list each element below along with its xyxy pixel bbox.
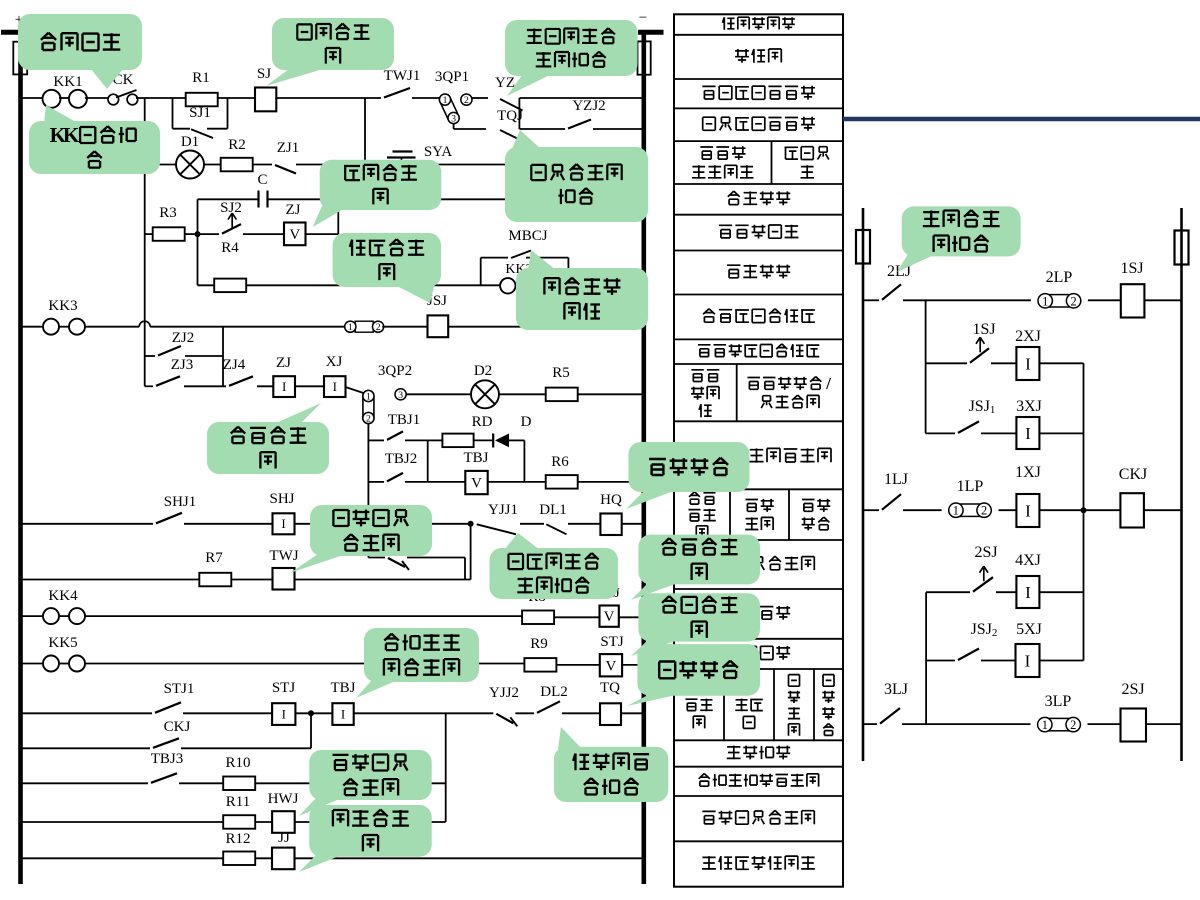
resistor R11 [223,815,255,829]
closing coil HQ [600,514,621,536]
svg-text:1LP: 1LP [957,478,984,495]
anti-pump relay TBJ coil (V) [465,471,487,494]
row6 R4 bypass / KK2 row [198,284,215,286]
svg-text:ZJ4: ZJ4 [223,357,246,373]
svg-text:DL2: DL2 [540,684,568,700]
trip position relay TWJ coil [273,568,295,590]
svg-text:1: 1 [348,322,353,333]
main left vertical feeder [144,98,146,386]
svg-text:R11: R11 [226,794,250,810]
svg-text:R5: R5 [552,365,570,381]
svg-text:STJ: STJ [272,680,296,696]
table row 18 text [727,746,790,760]
row1 wire: bus to KK1 [22,97,43,99]
svg-text:RD: RD [472,414,493,430]
svg-text:3QP2: 3QP2 [378,363,412,379]
rowA 2LJ / 2LP / 1SJ [863,299,879,301]
callout: KK handle contact label [44,105,76,124]
table row 2 text [735,49,781,63]
resistor R4 [214,279,246,293]
right circuit left bus [862,208,865,761]
wire hop over vertical [139,321,150,326]
SJ1 bypass contact branch [172,98,174,129]
table row 4 text [703,117,815,131]
svg-text:ZJ2: ZJ2 [172,330,195,346]
callout: manual trip relay label [631,640,678,656]
svg-text:SHJ: SHJ [269,491,294,507]
svg-text:2: 2 [464,95,469,106]
vertical from closing-row node down to TWJ row [470,524,472,580]
svg-text:V: V [471,476,482,492]
svg-text:KK4: KK4 [48,588,78,604]
resistor R9 [524,658,556,672]
junction node collector [1081,507,1087,513]
svg-text:TQJ: TQJ [497,108,523,124]
svg-text:TWJ1: TWJ1 [384,68,421,84]
intermediate relay ZJ coil (V) [284,223,306,246]
table row 14 text [702,556,814,570]
table row 20 text [702,810,814,824]
rowG 3LJ / 3LP / 2SJ [863,723,877,725]
svg-text:HWJ: HWJ [268,791,299,807]
callout: acceleration relay label [395,279,436,303]
resistor R8 [522,611,554,625]
callout: voltage monitor contact label [507,75,550,96]
rowF JSJ2 contact / 5XJ [926,660,955,662]
callout: monitor relay label [299,855,342,872]
svg-text:3QP1: 3QP1 [435,69,469,85]
relay 2SJ coil [1121,709,1147,742]
svg-text:3LP: 3LP [1045,693,1072,710]
svg-text:1: 1 [443,95,448,106]
svg-text:SJ1: SJ1 [189,105,211,121]
svg-text:ZJ: ZJ [286,202,301,218]
resistor R2 [221,158,253,172]
row2 TQJ wire from 3QP1 pin3 [453,124,455,130]
svg-text:I: I [1025,651,1031,670]
svg-text:3XJ: 3XJ [1016,398,1042,415]
negative DC bus stub (-) [638,30,664,35]
svg-text:TBJ: TBJ [463,450,488,466]
svg-text:TBJ2: TBJ2 [385,451,418,467]
row7 KK3 / JSJ row [22,326,43,328]
acceleration relay JSJ coil [428,315,449,337]
decorative blue divider line [843,117,1200,122]
svg-text:CKJ: CKJ [1119,466,1147,483]
svg-text:I: I [1025,424,1031,443]
callout: synchronism relay contact label [512,130,541,149]
callout: manual close relay label [631,583,678,600]
branch vertical rowA [925,300,927,433]
svg-text:TBJ3: TBJ3 [151,751,184,767]
svg-text:2: 2 [1071,294,1077,308]
svg-text:R10: R10 [225,755,250,771]
callout: closing coil label [626,490,676,509]
row20 R11 / HWJ row [22,821,223,823]
svg-text:ZJ1: ZJ1 [277,140,300,156]
svg-text:STJ1: STJ1 [164,681,195,697]
svg-text:5XJ: 5XJ [1016,621,1042,638]
contact STJ1 [155,702,181,713]
vertical TBJ row down to HWJ row [445,713,447,822]
fuse on right-circuit right bus [1175,231,1189,265]
resistor R5 [546,388,578,402]
signal relay 5XJ coil (I) [1016,644,1040,677]
table row 8 text [727,265,790,279]
changeover switch CK [108,94,119,105]
svg-text:1XJ: 1XJ [1015,464,1041,481]
svg-text:R2: R2 [228,137,246,153]
svg-text:V: V [605,658,616,674]
resistor R3 [153,227,185,241]
svg-text:4XJ: 4XJ [1015,552,1041,569]
table row 12 text [749,448,831,462]
left DC bus bar [18,30,23,884]
svg-text:/: / [825,374,831,393]
svg-text:2SJ: 2SJ [1121,681,1144,698]
monitor relay JJ coil [272,848,295,870]
callout: breaker aux contact label [558,727,582,749]
svg-text:CKJ: CKJ [164,719,191,735]
row5 R3/ZJ coil row [145,233,153,235]
relay STJ coil (I) [272,703,295,725]
svg-text:1: 1 [1042,294,1048,308]
manual close relay coil (V) SHJ [600,606,619,627]
signal relay 4XJ coil (I) [1016,576,1039,608]
function table [674,14,843,886]
contact SHJ1 [156,513,182,524]
svg-text:SHJ1: SHJ1 [164,494,197,510]
svg-text:V: V [604,609,615,625]
anti-pump relay TBJ current coil (I) [332,703,353,725]
svg-text:3LJ: 3LJ [884,681,908,698]
fuse on left bus [13,42,27,75]
callout: busbar protection exit label [528,250,556,270]
positive DC bus stub (+) [1,30,19,35]
NC contact branch above TWJ [368,557,385,559]
signal relay 2XJ coil (I) [1016,347,1039,380]
table row 1 text [723,17,795,30]
table row 7 text [719,225,799,239]
table row 16 text [728,646,790,660]
callout: intermediate relay label [313,206,342,227]
callout: close position relay label [299,798,342,816]
svg-text:I: I [333,379,337,394]
svg-text:2LP: 2LP [1046,269,1073,286]
svg-text:2: 2 [366,414,371,425]
trip coil TQ [600,703,621,725]
reclose output relay CKJ coil [1120,493,1144,527]
svg-text:R1: R1 [192,70,210,86]
resistor R6 [546,475,578,489]
resistor R1 [186,93,218,107]
rowD 1LJ / 1LP / 1XJ / CKJ [863,509,879,511]
row12 SHJ / HQ closing row [22,523,153,525]
svg-text:DL1: DL1 [539,502,567,518]
branch vertical rowE-G [925,592,927,724]
row16 KK5 row [22,663,43,665]
svg-text:2: 2 [1070,718,1076,732]
svg-text:YZJ2: YZJ2 [572,98,605,114]
svg-text:SJ: SJ [257,66,271,82]
svg-text:1SJ: 1SJ [972,321,995,338]
test jack SYA [393,150,413,152]
manual close relay SHJ coil (I) [273,513,295,534]
relay ZJ signal coil (I) [273,376,295,397]
callout: trip coil label [627,694,680,706]
row19 TBJ3 / R10 row [22,782,148,784]
right circuit right bus [1180,208,1183,761]
junction node on closing row [468,521,474,527]
callout: current relay contact label [897,254,936,272]
svg-text:1: 1 [953,504,959,518]
callout: time relay label [266,69,323,86]
resistor RD [442,434,473,448]
junction node trip row [308,710,314,716]
table row 11 split [736,364,738,421]
svg-text:2XJ: 2XJ [1015,328,1041,345]
capacitor C [257,191,259,208]
table row 13 splits [729,489,731,540]
collector vertical right circuit [1083,363,1085,660]
svg-text:YJJ2: YJJ2 [489,685,519,701]
svg-text:ZJ3: ZJ3 [171,357,194,373]
svg-text:1: 1 [1042,718,1048,732]
svg-text:V: V [289,227,300,243]
table row 19 text [699,774,819,787]
fuse on right-circuit left bus [856,230,870,264]
connector plug on JSJ row [355,321,373,332]
table row 15 text [728,606,790,620]
table row 5 split [771,141,773,184]
callout: pressure monitor contact label [504,533,540,550]
svg-text:D: D [521,414,532,430]
vertical branch from row1 down to SYA row [364,98,366,165]
row11 TBJ2 contact + TBJ coil + R6 [368,481,384,483]
svg-text:R6: R6 [551,454,569,470]
vertical node to CKJ row [310,713,312,748]
svg-text:1LJ: 1LJ [884,471,908,488]
KK handle contact KK1 [43,90,61,108]
junction node at R3 [195,231,201,237]
svg-text:YZ: YZ [495,75,515,91]
signal relay XJ coil (I) [324,376,346,397]
rowE 2SJ contact / 4XJ [926,591,970,593]
signal relay 1XJ coil (I) [1016,494,1039,527]
svg-text:ZJ: ZJ [276,355,291,371]
svg-text:3: 3 [398,390,403,401]
callout: changeover switch label [91,69,123,89]
svg-text:TWJ: TWJ [269,548,298,564]
svg-text:SYA: SYA [424,144,453,160]
svg-text:I: I [281,516,285,531]
row18 CKJ contact row [22,747,150,749]
close position relay HWJ coil [272,811,295,833]
svg-text:I: I [1025,583,1031,602]
table row 10 text [698,344,819,357]
right DC bus bar [641,30,646,884]
svg-text:TQ: TQ [600,680,620,696]
svg-text:2: 2 [376,322,381,333]
vertical from 3QP2 pin2 down through TBJ rows [367,424,369,558]
svg-text:−: − [639,10,647,26]
svg-text:R4: R4 [221,240,239,256]
svg-text:I: I [282,379,286,394]
svg-text:3: 3 [451,114,456,125]
svg-text:R3: R3 [159,205,177,221]
KK2 handle contact [500,278,515,293]
fuse on right bus [638,41,651,74]
time relay SJ coil [255,88,276,112]
row10 TBJ1 contact + RD diode branch [368,439,384,441]
svg-text:I: I [282,707,286,722]
svg-text:JJ: JJ [278,830,290,846]
svg-text:R7: R7 [205,550,223,566]
rowB 1SJ contact / 2XJ [926,362,967,364]
signal lamp D2 [471,380,499,408]
table row 6 text [728,191,790,205]
callout: trip position relay label [290,554,346,573]
svg-text:2SJ: 2SJ [974,544,997,561]
svg-text:YJJ1: YJJ1 [488,502,518,518]
svg-text:XJ: XJ [326,354,343,370]
contact TWJ1 [384,88,410,98]
table row 3 text [702,86,815,100]
busbar protection exit contact MBCJ [480,258,482,286]
row D2/R5 [406,393,471,395]
svg-text:R12: R12 [225,831,250,847]
row4 capacitor C row [197,199,199,285]
svg-text:K: K [63,123,80,147]
svg-text:D1: D1 [181,134,199,150]
KK handle contact KK4 [43,608,59,624]
callout: anti-pump blocking relay label [356,680,398,698]
svg-text:2: 2 [981,504,987,518]
svg-text:HQ: HQ [600,492,622,508]
signal lamp D1 [176,151,204,179]
resistor R10 [223,777,255,791]
svg-text:MBCJ: MBCJ [508,228,547,244]
svg-text:I: I [1025,354,1031,373]
svg-text:KK3: KK3 [48,298,77,314]
svg-text:TBJ: TBJ [330,680,355,696]
svg-text:R9: R9 [530,636,548,652]
svg-text:I: I [341,707,345,722]
relay 1SJ coil [1121,284,1145,317]
diode D [492,434,494,448]
svg-text:I: I [1025,501,1031,520]
KK handle contact KK5 [43,656,59,672]
row21 R12 / JJ row [22,857,223,859]
svg-text:KK5: KK5 [48,635,77,651]
signal relay 3XJ coil (I) [1016,417,1039,449]
svg-text:STJ: STJ [600,634,624,650]
manual trip relay STJ coil (V) [600,654,622,676]
rowC JSJ1 contact / 3XJ [926,432,955,434]
svg-text:1: 1 [366,392,371,403]
resistor R7 [199,573,231,587]
table row 17 splits [723,669,725,740]
svg-text:C: C [257,172,267,188]
resistor R12 [223,852,255,866]
table row 9 text [703,309,815,323]
svg-text:KK1: KK1 [53,74,82,90]
vertical collector for ZJ2/ZJ3 rows [222,327,224,387]
svg-text:1SJ: 1SJ [1120,260,1143,277]
row17 STJ1 / TBJ / TQ trip row [22,712,152,714]
row14 R7 / TWJ row [22,579,199,581]
callout: signal relay label [276,403,321,423]
svg-text:D2: D2 [474,363,492,379]
row3 wire D1 row [145,164,177,166]
wire YZ/TQJ common vertical [518,98,520,129]
table row 21 text [702,856,815,870]
row15 KK4 row [22,615,43,617]
svg-text:TBJ1: TBJ1 [388,412,421,428]
KK handle contact KK3 [43,319,59,335]
